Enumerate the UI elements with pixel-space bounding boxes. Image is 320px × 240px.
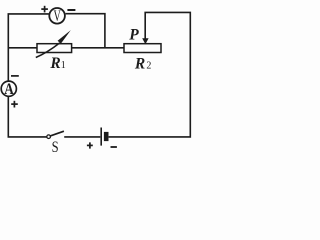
svg-text:R: R [49,55,60,72]
svg-text:R: R [134,55,145,72]
svg-text:V: V [54,8,62,25]
svg-text:1: 1 [61,60,66,71]
svg-text:P: P [129,27,139,44]
svg-text:2: 2 [146,60,151,71]
svg-text:S: S [52,139,59,154]
svg-text:A: A [4,81,14,98]
